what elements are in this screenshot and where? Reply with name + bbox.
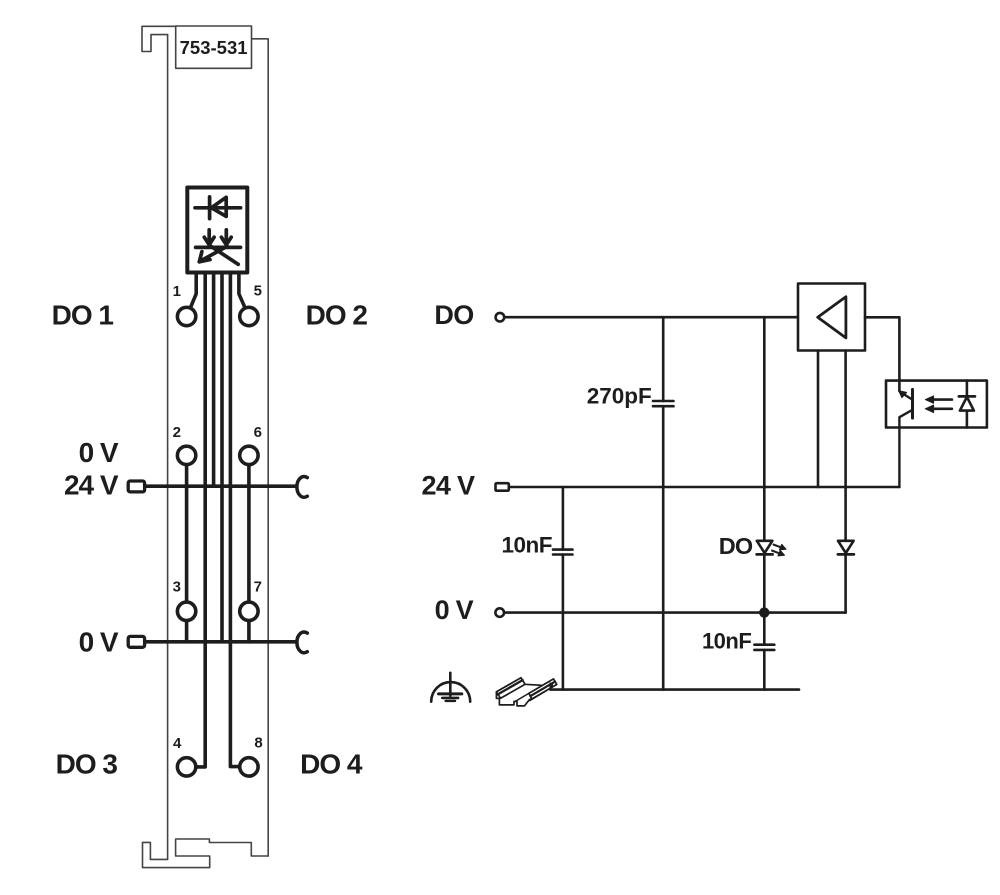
svg-text:DO: DO — [719, 533, 753, 559]
jumper contact C at 0V rail — [297, 632, 307, 653]
wire: 0V rail of module — [146, 640, 296, 644]
wire driver output to opto — [865, 317, 899, 391]
svg-text:10nF: 10nF — [501, 533, 552, 558]
phototransistor base bar — [911, 389, 914, 418]
optocoupler box — [886, 381, 987, 428]
svg-text:3: 3 — [173, 578, 181, 595]
LED DO triangle — [757, 541, 773, 553]
0V terminal circle — [495, 608, 504, 617]
svg-text:7: 7 — [254, 578, 262, 595]
pin wire LED box to terminal 4 — [196, 273, 205, 767]
svg-text:0 V: 0 V — [79, 626, 119, 657]
wire freewheel diode to 0V line — [844, 554, 847, 612]
pin wire LED box to 0V rail — [220, 273, 224, 642]
svg-text:10nF: 10nF — [702, 628, 751, 653]
terminal 8 — [240, 758, 258, 776]
wire terminal 2 to terminal 3 — [185, 465, 189, 602]
opto LED diode vertical wire — [966, 381, 969, 428]
capacitor 10nF right plates — [754, 645, 774, 650]
terminal 7 — [240, 602, 258, 620]
pin wire from LED box to terminal 5 — [239, 273, 245, 309]
LED DO cathode bar — [757, 553, 773, 556]
diode symbol in LED box — [195, 197, 241, 219]
label box 753-531 — [176, 26, 252, 68]
svg-text:270pF: 270pF — [587, 384, 652, 409]
opto light arrow lower — [932, 407, 952, 410]
driver triangle — [818, 297, 846, 338]
terminal 5 — [240, 307, 258, 325]
svg-text:5: 5 — [254, 282, 262, 299]
connector square 0V — [128, 636, 144, 647]
wire 10nF right branch lower — [763, 650, 766, 690]
wire: 24V rail of module — [146, 484, 296, 488]
DIN rail icon — [496, 678, 556, 706]
connector square 24V — [128, 481, 144, 492]
wire driver pin to freewheel diode — [844, 351, 847, 541]
wire 10nF right branch upper — [763, 613, 766, 645]
wire 0V line — [504, 611, 845, 614]
svg-text:24 V: 24 V — [422, 470, 475, 500]
wire 270pF branch lower to shield rail — [662, 406, 665, 689]
wire terminal 6 to terminal 7 — [247, 465, 251, 602]
opto LED cathode bar — [959, 395, 975, 398]
wire driver pin to 24V rail — [817, 351, 820, 488]
terminal 4 — [177, 758, 195, 776]
pin wire LED box to 24V rail — [212, 273, 216, 487]
svg-text:DO 4: DO 4 — [300, 748, 363, 779]
freewheel diode triangle — [838, 541, 854, 553]
24V terminal square — [496, 483, 509, 491]
svg-text:DO 1: DO 1 — [52, 300, 114, 331]
svg-text:6: 6 — [254, 424, 262, 441]
wire LED to 0V junction — [763, 554, 766, 612]
module outline bottom feet — [143, 839, 269, 868]
svg-text:DO: DO — [434, 300, 473, 330]
svg-text:2: 2 — [173, 424, 181, 441]
terminal 6 — [240, 446, 258, 464]
driver box U1 — [798, 284, 865, 351]
module outline top-left hook — [142, 26, 176, 51]
svg-text:DO 3: DO 3 — [56, 748, 118, 779]
svg-text:4: 4 — [173, 735, 182, 752]
opto light arrow upper — [932, 398, 952, 401]
phototransistor collector — [899, 410, 912, 487]
svg-text:DO 2: DO 2 — [306, 300, 368, 331]
wire 10nF left branch lower — [562, 555, 565, 690]
phototransistor emitter with arrow — [904, 394, 913, 400]
svg-text:1: 1 — [173, 283, 181, 300]
capacitor 270pF plates — [653, 401, 674, 406]
svg-text:0 V: 0 V — [435, 595, 474, 625]
pin wire LED box to terminal 8 — [230, 273, 239, 767]
freewheel diode cathode bar — [838, 553, 854, 556]
wire 270pF branch upper — [662, 317, 665, 401]
earth ground symbol — [431, 673, 470, 702]
LED indicator box — [187, 188, 247, 273]
terminal 2 — [177, 446, 195, 464]
capacitor 10nF left plates — [553, 550, 573, 555]
pin wire from LED box to terminal 1 — [190, 273, 196, 309]
DO input terminal circle — [496, 313, 505, 322]
wire 24V rail — [510, 486, 899, 489]
LED DO light arrows — [772, 544, 786, 556]
wire DO to driver box — [505, 316, 798, 319]
module outline right edge — [252, 39, 269, 856]
module outline left edge — [167, 35, 169, 860]
wire terminal 3 to 0V rail — [185, 621, 189, 642]
wire 10nF left branch upper — [562, 487, 565, 550]
opto LED triangle — [960, 397, 974, 411]
junction dot 0V/LED/10nF — [759, 607, 769, 617]
wire terminal 7 to 0V rail — [247, 621, 251, 642]
wire shield rail bottom — [551, 688, 800, 691]
terminal 1 — [177, 307, 195, 325]
jumper contact C at 24V rail — [297, 476, 307, 497]
svg-text:0 V: 0 V — [79, 437, 119, 468]
svg-text:8: 8 — [254, 735, 262, 752]
svg-text:24 V: 24 V — [64, 470, 119, 501]
svg-text:753-531: 753-531 — [180, 37, 248, 58]
wire DO-LED branch from DO wire — [763, 317, 766, 541]
LED arrows symbol in LED box — [196, 230, 241, 264]
terminal 3 — [177, 602, 195, 620]
wire into opto from top — [898, 381, 901, 391]
